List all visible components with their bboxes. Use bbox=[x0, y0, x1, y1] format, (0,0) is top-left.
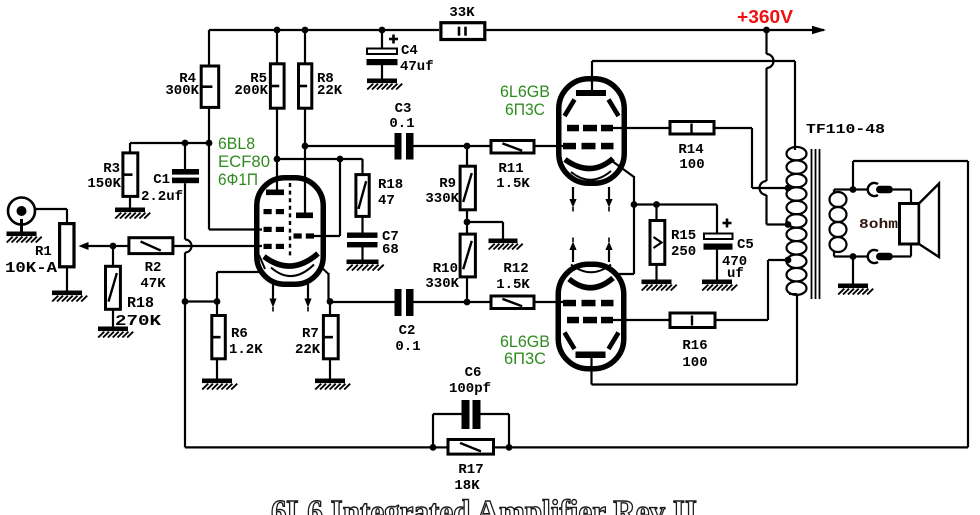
label 6L6GB (V3) bbox=[500, 332, 550, 351]
label 1.2K bbox=[229, 342, 263, 358]
label 6L6GB (V2) bbox=[500, 82, 550, 101]
svg-text:100: 100 bbox=[679, 157, 704, 173]
wire cathode node segment bbox=[185, 300, 217, 302]
wire R12 to V3 grid bbox=[536, 301, 567, 303]
wire wiper to R2 bbox=[113, 245, 129, 247]
svg-text:1.5K: 1.5K bbox=[496, 176, 530, 192]
node dots cathode left bbox=[182, 298, 221, 305]
label R11 bbox=[498, 161, 523, 177]
resistor R3 150K bbox=[123, 153, 138, 197]
tube V2 6L6GB envelope bbox=[559, 79, 625, 184]
resistor R6 1.2K bbox=[212, 316, 226, 359]
label R6 bbox=[231, 326, 248, 342]
V1 triode plate bbox=[266, 190, 284, 196]
label 6P3C (V3) bbox=[504, 349, 546, 368]
resistor R8 22K bbox=[299, 64, 312, 108]
label 330K (R10) bbox=[425, 276, 459, 292]
svg-text:R2: R2 bbox=[145, 260, 162, 276]
wire R5 to V1 triode plate bbox=[276, 108, 278, 190]
wire branch to V1 right grid bbox=[314, 159, 340, 236]
label 270K bbox=[115, 313, 161, 330]
svg-text:300K: 300K bbox=[165, 83, 199, 99]
svg-text:C3: C3 bbox=[395, 101, 412, 117]
label R9 bbox=[439, 176, 456, 192]
V2 heater arrows bbox=[569, 187, 612, 212]
label 300K bbox=[165, 83, 199, 99]
svg-text:R9: R9 bbox=[439, 176, 456, 192]
ground R6 bbox=[202, 379, 237, 390]
svg-text:47K: 47K bbox=[140, 276, 166, 292]
svg-text:6П3С: 6П3С bbox=[505, 100, 545, 119]
wire R8 to V1 pentode plate bbox=[304, 108, 306, 213]
label 100 (R16) bbox=[682, 355, 707, 371]
svg-text:+360V: +360V bbox=[737, 7, 793, 27]
ground C7 bbox=[347, 260, 384, 271]
svg-text:200K: 200K bbox=[234, 83, 268, 99]
resistor R9 330K bbox=[460, 146, 475, 210]
svg-text:330K: 330K bbox=[425, 276, 459, 292]
wire R10 bottom bbox=[466, 277, 468, 303]
wire connector to speaker bottom bbox=[893, 243, 911, 257]
V1 inner arc bbox=[271, 265, 314, 277]
svg-text:R3: R3 bbox=[103, 161, 120, 177]
V3 screen dashes bbox=[567, 317, 613, 324]
node dot R7 bbox=[327, 298, 334, 305]
label C4 bbox=[401, 43, 418, 59]
svg-text:R18: R18 bbox=[127, 295, 154, 312]
svg-text:R10: R10 bbox=[433, 261, 458, 277]
resistor R4 300K bbox=[201, 66, 219, 107]
label 8ohm bbox=[859, 217, 898, 233]
ground R18 bbox=[98, 327, 133, 338]
label R4 bbox=[179, 71, 196, 87]
svg-text:R15: R15 bbox=[671, 228, 696, 244]
svg-text:0.1: 0.1 bbox=[389, 116, 414, 132]
wire R1 bottom to ground bbox=[66, 267, 68, 291]
label 330K (R9) bbox=[425, 191, 459, 207]
wire R4 node to tube grid row2 bbox=[209, 143, 262, 230]
label C1 bbox=[153, 172, 170, 188]
svg-text:6L6GB: 6L6GB bbox=[500, 82, 550, 101]
node dots secondary bbox=[850, 186, 857, 260]
svg-text:C4: C4 bbox=[401, 43, 418, 59]
V2 grid dashes bbox=[563, 143, 614, 150]
label 47 bbox=[378, 193, 395, 209]
label R14 bbox=[678, 142, 703, 158]
capacitor C7 68 bbox=[347, 233, 378, 248]
resistor R17 18K bbox=[433, 440, 509, 455]
label TF110-48 bbox=[806, 122, 885, 138]
label 0.1 (C2) bbox=[395, 339, 420, 355]
wire jack to R1 bbox=[34, 209, 67, 222]
label 100pf bbox=[449, 381, 491, 397]
node A junction dots bbox=[182, 140, 213, 147]
wire secondary dot to connector top bbox=[853, 188, 869, 190]
wire center tap feed with hops bbox=[760, 30, 786, 225]
svg-text:C2: C2 bbox=[399, 323, 416, 339]
label R18 47 bbox=[378, 177, 403, 193]
label 22K (R7) bbox=[295, 342, 321, 358]
node wiper junction dot bbox=[110, 243, 117, 250]
wire R3 to ground bbox=[129, 197, 131, 208]
svg-text:C1: C1 bbox=[153, 172, 170, 188]
wire R4 top bbox=[208, 30, 210, 67]
wire R8 top bbox=[304, 30, 306, 64]
label ECF80 bbox=[218, 152, 270, 171]
input jack J1 bbox=[8, 198, 35, 232]
label R5 bbox=[250, 71, 267, 87]
svg-text:R16: R16 bbox=[682, 338, 707, 354]
transformer T1 core bbox=[812, 149, 820, 299]
V2 screen dashes bbox=[567, 125, 613, 132]
wire R14 to UL tap bbox=[715, 128, 786, 188]
node dot R10 bottom bbox=[464, 299, 471, 306]
label 1.5K (R12) bbox=[496, 277, 530, 293]
resistor R11 1.5K bbox=[491, 141, 534, 154]
V3 heater arrows bbox=[569, 238, 612, 263]
label R15 bbox=[671, 228, 696, 244]
V1 dashed screen line bbox=[289, 183, 291, 258]
label 68 bbox=[382, 242, 399, 258]
svg-text:33K: 33K bbox=[449, 5, 475, 21]
svg-text:8ohm: 8ohm bbox=[859, 217, 898, 233]
wire C1 down with hop over R2 wire bbox=[185, 183, 192, 301]
capacitor C6 100pf bypass bbox=[433, 400, 509, 447]
capacitor C3 0.1 bbox=[395, 133, 414, 160]
svg-text:ECF80: ECF80 bbox=[218, 152, 270, 171]
svg-text:150K: 150K bbox=[87, 176, 121, 192]
node dot R9 top bbox=[464, 143, 471, 150]
resistor R15 250 bbox=[650, 205, 665, 265]
wire R11 to V2 grid bbox=[536, 145, 567, 147]
V1 cathode left lead bbox=[259, 255, 265, 269]
wire R16 to UL tap bbox=[716, 260, 786, 320]
node dots screen wire bbox=[274, 156, 344, 163]
svg-text:0.1: 0.1 bbox=[395, 339, 420, 355]
wire R9/R10 mid to ground bbox=[467, 210, 503, 239]
svg-text:330K: 330K bbox=[425, 191, 459, 207]
+360V label bbox=[737, 7, 793, 27]
speaker LS1 bbox=[900, 184, 940, 258]
V1 cathode arc bbox=[264, 254, 318, 267]
transformer T1 secondary winding bbox=[830, 192, 847, 252]
wire R5 top bbox=[276, 30, 278, 64]
resistor R10 330K bbox=[460, 234, 475, 277]
V3 cathode arc bbox=[569, 278, 613, 288]
wire secondary bottom lead bbox=[834, 252, 853, 257]
svg-text:C5: C5 bbox=[737, 237, 754, 253]
wire secondary top lead bbox=[834, 190, 853, 194]
wire screen node from R5 line to R18 bbox=[277, 159, 363, 175]
tube V1 6BL8 envelope bbox=[257, 178, 324, 285]
label C6 bbox=[465, 365, 482, 381]
svg-text:6П3С: 6П3С bbox=[504, 349, 546, 368]
wire V3 screen to R16 bbox=[613, 319, 669, 321]
svg-text:R14: R14 bbox=[678, 142, 703, 158]
wire R18 to ground bbox=[112, 309, 114, 327]
title 6L6 Integrated Amplifier Rev II bbox=[271, 494, 697, 515]
label 18K bbox=[454, 478, 480, 494]
wire V3 anode to transformer bbox=[592, 294, 798, 385]
label 150K bbox=[87, 176, 121, 192]
svg-text:22K: 22K bbox=[317, 83, 343, 99]
label R7 bbox=[302, 326, 319, 342]
wire R18 top bbox=[112, 246, 114, 267]
svg-text:47uf: 47uf bbox=[400, 59, 434, 75]
ground R3 bbox=[115, 208, 150, 219]
tube V3 6L6GB envelope bbox=[558, 264, 624, 369]
wire R4 bottom to node A bbox=[208, 108, 210, 144]
label R8 bbox=[317, 71, 334, 87]
wire V1 triode cathode to R6 node bbox=[217, 272, 262, 302]
V1 left grid dashes bbox=[264, 209, 285, 249]
capacitor C4 47uf electrolytic bbox=[367, 35, 399, 66]
svg-text:100: 100 bbox=[682, 355, 707, 371]
label 0.1 (C3) bbox=[389, 116, 414, 132]
wire bottom left bbox=[185, 302, 433, 448]
svg-text:22K: 22K bbox=[295, 342, 321, 358]
resistor R18 270K bbox=[106, 266, 121, 309]
svg-text:47: 47 bbox=[378, 193, 395, 209]
label C5 bbox=[737, 237, 754, 253]
label uf (C5) bbox=[727, 266, 744, 282]
ground R7 bbox=[315, 379, 350, 390]
capacitor C2 0.1 bbox=[395, 289, 414, 316]
svg-text:18K: 18K bbox=[454, 478, 480, 494]
label 1.5K (R11) bbox=[496, 176, 530, 192]
label R10 bbox=[433, 261, 458, 277]
wire V2 anode to transformer bbox=[592, 61, 795, 150]
wire R18 to C7 bbox=[361, 216, 363, 233]
wire node A horizontal bbox=[130, 143, 209, 153]
svg-text:1.2K: 1.2K bbox=[229, 342, 263, 358]
wire cathode node to C2 bbox=[330, 301, 395, 303]
svg-text:10K-A: 10K-A bbox=[5, 260, 57, 277]
label R3 bbox=[103, 161, 120, 177]
V3 grid dashes bbox=[563, 300, 614, 307]
node B+ junction dots on rail bbox=[274, 27, 770, 34]
node dots R17 bbox=[430, 444, 513, 451]
svg-text:1.5K: 1.5K bbox=[496, 277, 530, 293]
svg-text:68: 68 bbox=[382, 242, 399, 258]
wire V1 pentode plate to C3 bbox=[305, 145, 395, 147]
resistor R14 100 bbox=[670, 122, 714, 135]
svg-text:6Ф1П: 6Ф1П bbox=[218, 170, 258, 189]
ground secondary bbox=[838, 284, 873, 295]
label 10K-A bbox=[5, 260, 57, 277]
V3 anode bar bbox=[576, 352, 606, 359]
label 250 bbox=[671, 244, 696, 260]
label 47K bbox=[140, 276, 166, 292]
wire C2 to R12 bbox=[414, 301, 490, 303]
node dot plate-C3 bbox=[302, 143, 309, 150]
label 33K bbox=[449, 5, 475, 21]
R1 wiper arrow bbox=[79, 242, 114, 250]
label R2 bbox=[145, 260, 162, 276]
connector top output bbox=[868, 183, 893, 196]
label 47uf bbox=[400, 59, 434, 75]
resistor R2 47K bbox=[129, 238, 173, 254]
V2 cathode lead diagonal bbox=[612, 161, 634, 177]
ground C4 bbox=[367, 79, 402, 90]
svg-text:2.2uf: 2.2uf bbox=[141, 189, 183, 205]
V1 right grid dashes bbox=[294, 233, 315, 238]
resistor R18 47 (screen stopper) bbox=[356, 175, 369, 217]
resistor R16 100 bbox=[670, 313, 715, 328]
wire C7 to ground bbox=[361, 247, 363, 260]
V1 pentode plate bbox=[296, 213, 313, 219]
wire V1 pentode cathode to R7 node bbox=[320, 266, 329, 302]
svg-text:6L6 Integrated Amplifier Rev I: 6L6 Integrated Amplifier Rev II bbox=[271, 494, 697, 515]
+360V arrowhead bbox=[812, 26, 826, 34]
ground jack bbox=[7, 232, 42, 243]
label R12 bbox=[503, 261, 528, 277]
svg-text:TF110-48: TF110-48 bbox=[806, 122, 885, 138]
wire connector to speaker top bbox=[893, 190, 911, 206]
svg-text:R11: R11 bbox=[498, 161, 523, 177]
wire secondary to ground bbox=[852, 257, 854, 284]
V2 anode bar bbox=[576, 90, 606, 96]
V3 beam plates bbox=[565, 333, 619, 350]
node dots cathode bbox=[631, 201, 660, 208]
V2 inner arc bbox=[571, 171, 611, 180]
label 6BL8 bbox=[218, 134, 255, 153]
wire feedback from secondary bbox=[509, 161, 968, 447]
connector bottom output bbox=[868, 250, 893, 263]
label 200K bbox=[234, 83, 268, 99]
label C7 bbox=[382, 229, 399, 245]
label 470 bbox=[722, 254, 747, 270]
ground R15 bbox=[642, 280, 677, 291]
svg-text:R12: R12 bbox=[503, 261, 528, 277]
label 100 (R14) bbox=[679, 157, 704, 173]
ground C5 bbox=[702, 280, 737, 291]
potentiometer R1 10K-A bbox=[60, 224, 74, 267]
resistor R12 1.5K bbox=[491, 296, 534, 309]
label 22K bbox=[317, 83, 343, 99]
svg-text:250: 250 bbox=[671, 244, 696, 260]
svg-text:R6: R6 bbox=[231, 326, 248, 342]
resistor 33K (rail) bbox=[441, 23, 485, 40]
V1 heater arrows bbox=[269, 284, 311, 312]
label 2.2uf bbox=[141, 189, 183, 205]
label R16 bbox=[682, 338, 707, 354]
node dot R9-R10 bbox=[464, 219, 471, 226]
V2 beam plates bbox=[565, 100, 619, 117]
wire R6 to ground bbox=[216, 359, 218, 379]
label 6P3C (V2) bbox=[505, 100, 545, 119]
label R17 bbox=[458, 462, 483, 478]
label R1 bbox=[35, 244, 52, 260]
wire R7 top bbox=[329, 302, 331, 317]
svg-text:100pf: 100pf bbox=[449, 381, 491, 397]
wire +360V top rail bbox=[209, 29, 824, 31]
wire R15 to ground bbox=[655, 264, 657, 280]
ground R1 bbox=[52, 291, 87, 302]
node dots UL taps and center tap bbox=[785, 185, 792, 264]
wire R2 to triode grid bbox=[173, 245, 263, 247]
svg-text:R1: R1 bbox=[35, 244, 52, 260]
svg-text:R18: R18 bbox=[378, 177, 403, 193]
transformer T1 primary winding bbox=[787, 147, 807, 295]
capacitor C5 470uf bbox=[704, 219, 733, 250]
svg-text:C6: C6 bbox=[465, 365, 482, 381]
V2 cathode arc bbox=[565, 159, 613, 169]
wire secondary dot to connector bottom bbox=[853, 255, 869, 257]
resistor R7 22K bbox=[323, 316, 338, 359]
svg-text:6BL8: 6BL8 bbox=[218, 134, 255, 153]
label 6F1P bbox=[218, 170, 258, 189]
wire C4 to rail bbox=[381, 30, 383, 79]
svg-text:R17: R17 bbox=[458, 462, 483, 478]
wire C5 to ground bbox=[716, 250, 718, 280]
V3 inner arc bbox=[571, 265, 611, 273]
wire V2 screen to R14 bbox=[613, 127, 669, 129]
label C3 bbox=[395, 101, 412, 117]
capacitor C1 2.2uf bbox=[172, 143, 199, 183]
svg-text:R7: R7 bbox=[302, 326, 319, 342]
label C2 bbox=[399, 323, 416, 339]
wire C3 to R11 bbox=[414, 145, 490, 147]
ground mid divider bbox=[489, 239, 523, 250]
label R18 bbox=[127, 295, 154, 312]
wire shared cathode node bbox=[616, 176, 717, 274]
wire R7 to ground bbox=[329, 359, 331, 379]
wire R6 top bbox=[216, 302, 218, 317]
resistor R5 200K bbox=[270, 64, 284, 108]
